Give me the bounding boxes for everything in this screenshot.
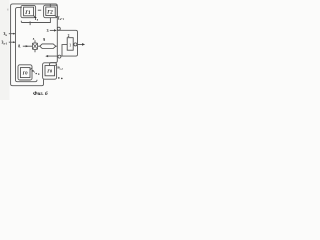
svg-text:Фиг. 6: Фиг. 6 (33, 91, 48, 97)
svg-text:9: 9 (43, 38, 45, 42)
svg-text:Г0: Г0 (46, 69, 53, 74)
svg-text:Г0: Г0 (22, 70, 29, 75)
svg-text:2: 2 (68, 34, 70, 38)
svg-text:3: 3 (47, 29, 49, 33)
svg-text:8.: 8. (18, 45, 21, 50)
svg-text:Г1: Г1 (24, 11, 30, 16)
svg-text:Г2: Г2 (46, 11, 53, 16)
svg-text:1: 1 (69, 43, 71, 48)
